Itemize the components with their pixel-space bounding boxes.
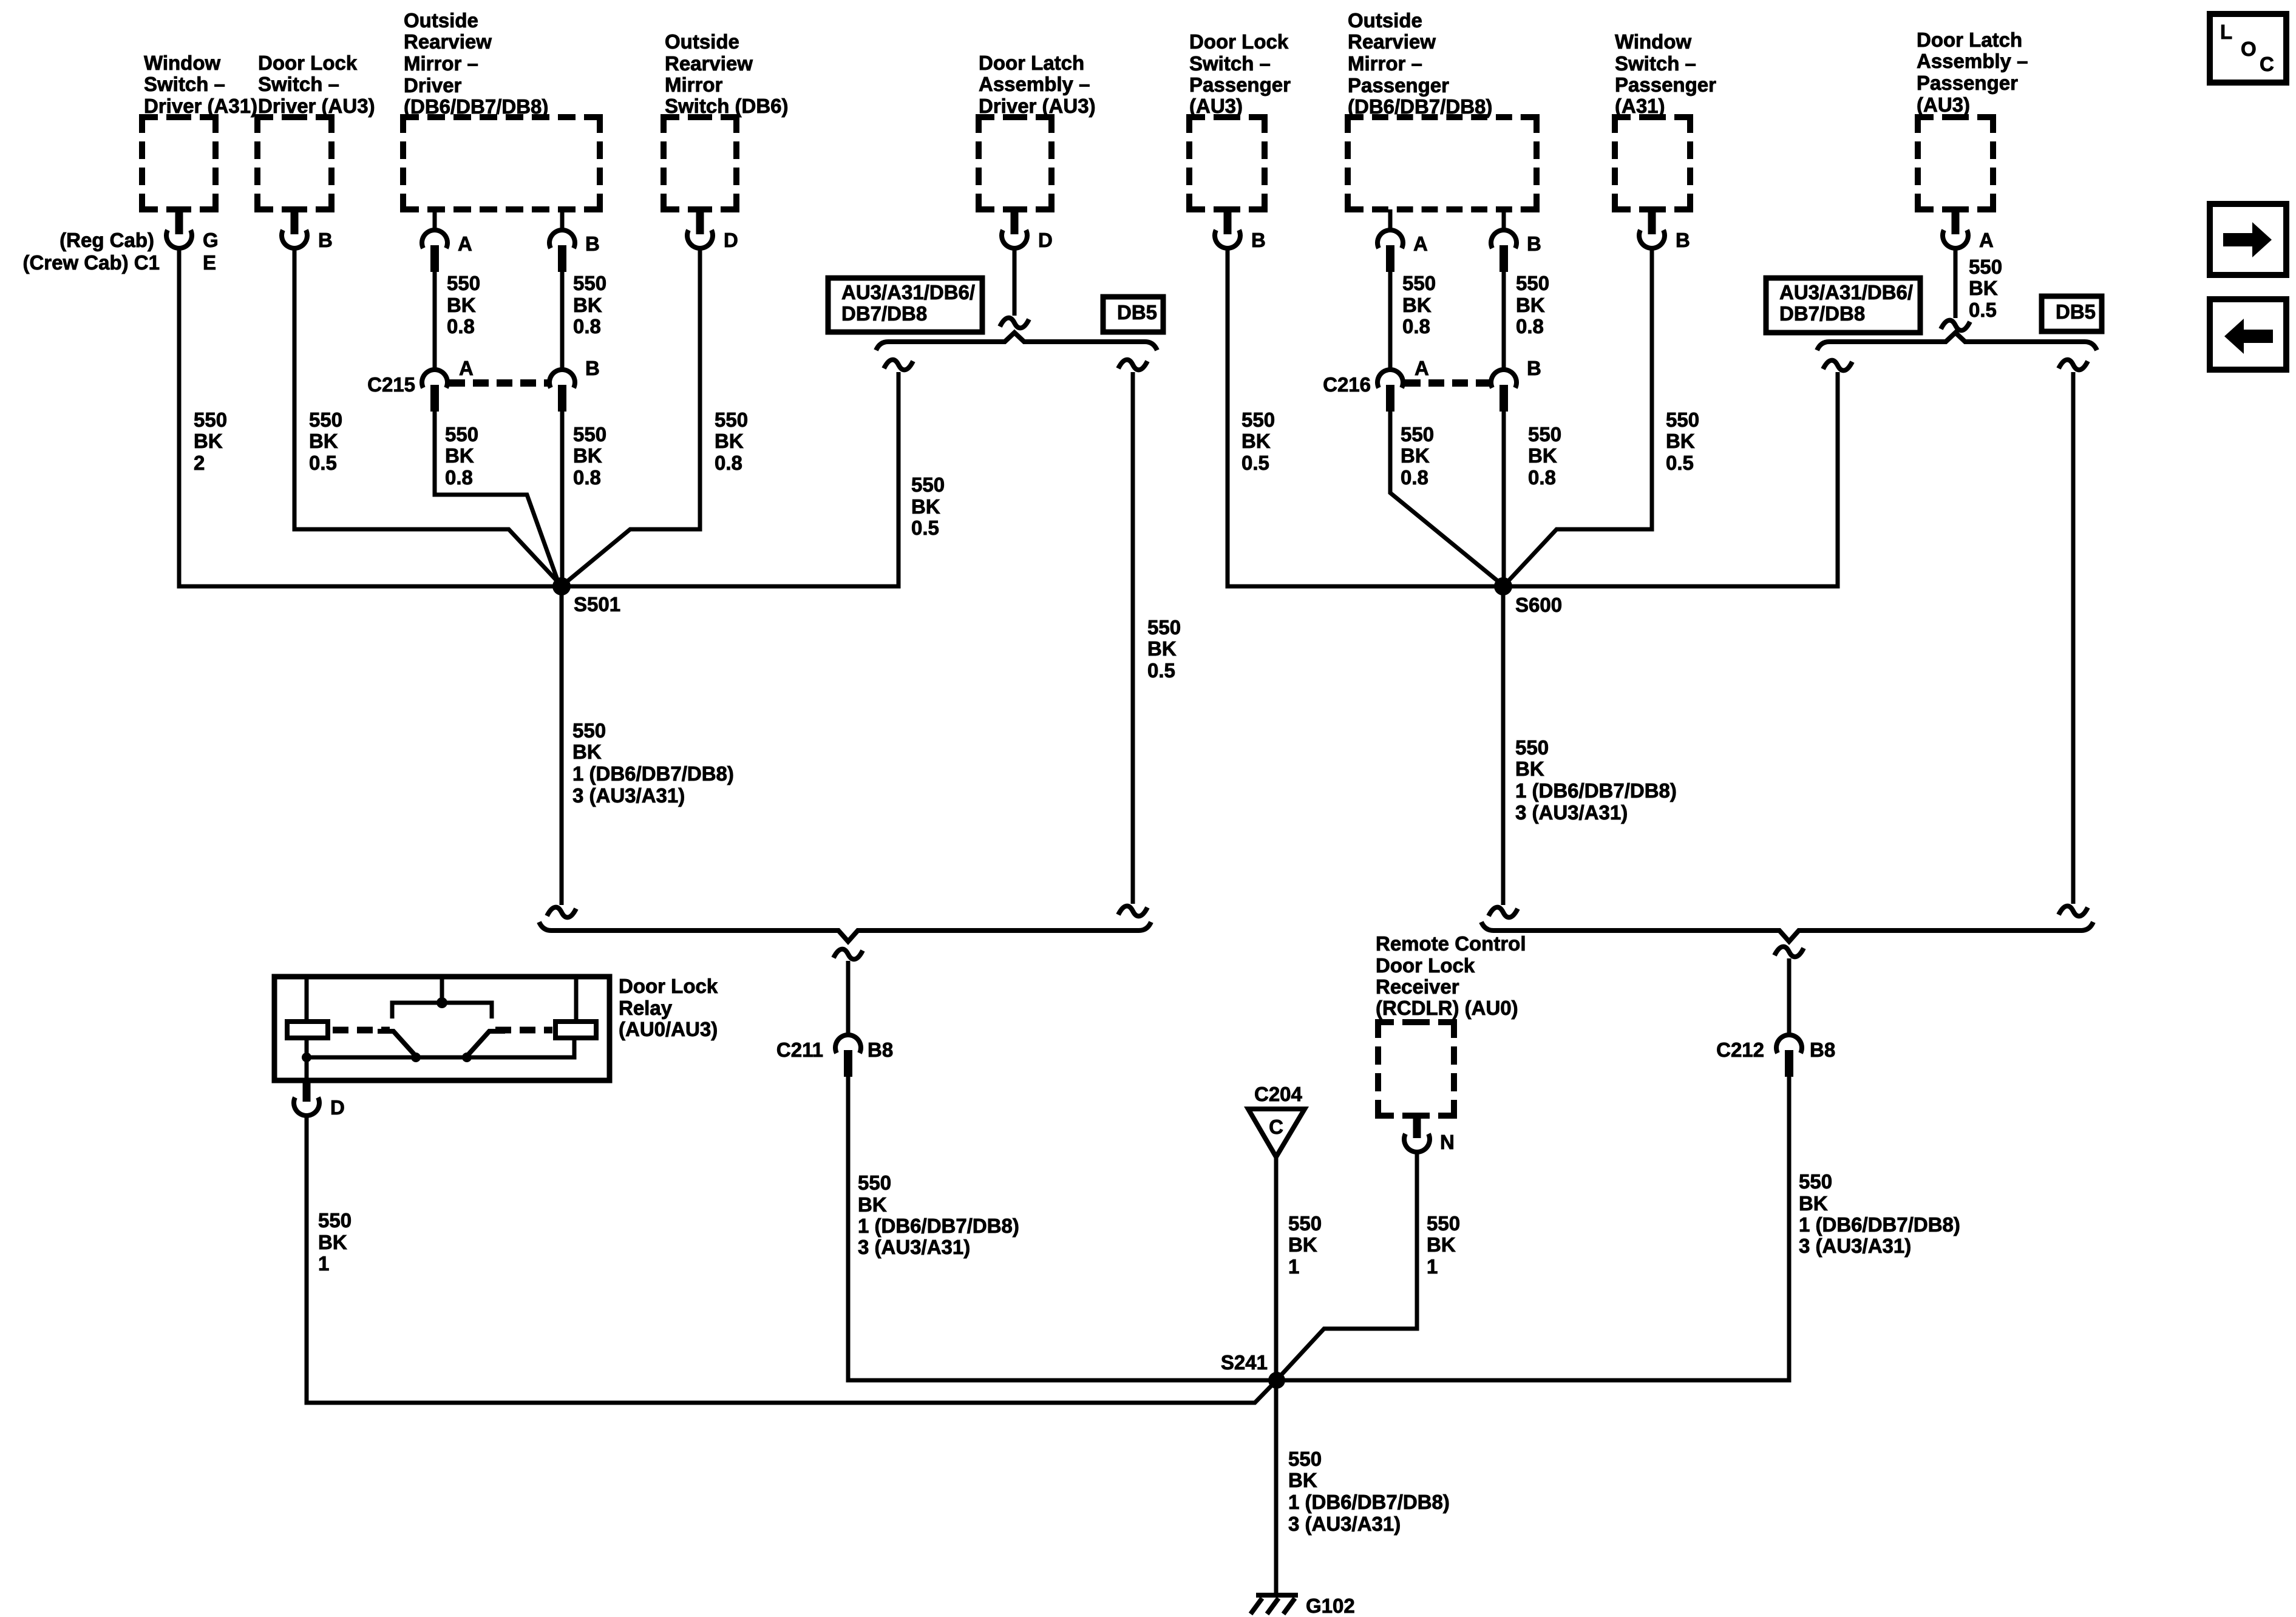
svg-text:Door Latch: Door Latch bbox=[979, 52, 1084, 74]
break symbol driver bracket left leg bbox=[884, 360, 913, 370]
wire: mirror driver pin A lead bbox=[433, 209, 437, 231]
pin letter A bbox=[458, 232, 472, 255]
wire: C215 B into S501 bbox=[560, 407, 565, 586]
connector B (Mirror Passenger) bbox=[1491, 230, 1517, 272]
svg-text:Driver (A31): Driver (A31) bbox=[144, 95, 257, 117]
svg-text:BK: BK bbox=[1241, 430, 1271, 452]
svg-text:1 (DB6/DB7/DB8): 1 (DB6/DB7/DB8) bbox=[572, 762, 734, 785]
pin letter G bbox=[203, 229, 219, 251]
svg-text:550: 550 bbox=[1288, 1212, 1322, 1235]
svg-text:A: A bbox=[1979, 229, 1994, 251]
dashed link C216 bbox=[1405, 379, 1489, 387]
svg-text:C211: C211 bbox=[776, 1039, 823, 1061]
svg-text:G102: G102 bbox=[1306, 1595, 1355, 1617]
wire label 550 BK 1/3 (S501 down) bbox=[572, 719, 734, 807]
svg-text:Mirror: Mirror bbox=[665, 73, 723, 96]
svg-text:Passenger: Passenger bbox=[1189, 73, 1291, 96]
dashed link C215 bbox=[449, 379, 548, 387]
svg-text:Driver (AU3): Driver (AU3) bbox=[258, 95, 375, 117]
svg-text:550: 550 bbox=[1147, 616, 1181, 639]
svg-text:Relay: Relay bbox=[619, 997, 673, 1019]
component box: Outside Rearview Mirror - Driver bbox=[403, 117, 600, 209]
connector C212 cavity B8 bbox=[1776, 1035, 1802, 1077]
svg-text:1 (DB6/DB7/DB8): 1 (DB6/DB7/DB8) bbox=[1515, 779, 1677, 802]
label C215 bbox=[367, 373, 415, 396]
wire: mirror passenger B to C216 bbox=[1502, 267, 1506, 368]
wire: mirror passenger pin B lead bbox=[1502, 209, 1506, 231]
splice S241 bbox=[1268, 1372, 1285, 1389]
svg-text:BK: BK bbox=[1515, 758, 1544, 780]
connector A (Mirror Passenger) bbox=[1377, 230, 1403, 272]
svg-text:Door Latch: Door Latch bbox=[1917, 29, 2022, 51]
svg-text:BK: BK bbox=[1427, 1233, 1456, 1256]
svg-text:Driver (AU3): Driver (AU3) bbox=[979, 95, 1096, 117]
svg-text:0.5: 0.5 bbox=[1666, 452, 1694, 474]
wire: mirror A to C215 bbox=[433, 267, 437, 368]
wire label 550 BK 1/3 (ground leg) bbox=[1288, 1448, 1450, 1535]
wire label 550 BK 0.5 (door lock driver) bbox=[309, 408, 342, 474]
wire: body harness ground bus bbox=[848, 1072, 1789, 1380]
svg-text:BK: BK bbox=[1288, 1233, 1317, 1256]
wire: door latch passenger A down bbox=[1954, 246, 1958, 318]
break symbol passenger bracket left leg bbox=[1823, 361, 1852, 371]
svg-text:B: B bbox=[318, 229, 333, 251]
wire label 550 BK 1 (C204) bbox=[1288, 1212, 1322, 1278]
svg-text:0.8: 0.8 bbox=[1402, 315, 1430, 337]
svg-text:3 (AU3/A31): 3 (AU3/A31) bbox=[1288, 1513, 1401, 1535]
svg-text:Switch –: Switch – bbox=[1615, 52, 1696, 75]
bracket brace (driver bottom) bbox=[539, 922, 1151, 941]
wire: C216 A into S600 bbox=[1390, 407, 1501, 584]
connector C215 cavity A bbox=[422, 370, 447, 412]
wire: mirror switch D into S501 bbox=[563, 246, 700, 585]
svg-text:3 (AU3/A31): 3 (AU3/A31) bbox=[858, 1236, 970, 1258]
svg-text:E: E bbox=[203, 251, 216, 274]
svg-text:Window: Window bbox=[1615, 30, 1691, 53]
wire: mirror driver pin B lead bbox=[560, 209, 565, 231]
box DB5 (driver) bbox=[1103, 297, 1163, 332]
pin letter B bbox=[1676, 229, 1690, 251]
splice S600 bbox=[1494, 577, 1512, 595]
svg-text:BK: BK bbox=[573, 294, 602, 316]
svg-text:1: 1 bbox=[1288, 1255, 1299, 1278]
text DB5 (driver) bbox=[1117, 301, 1157, 324]
svg-text:Rearview: Rearview bbox=[404, 30, 492, 53]
svg-text:550: 550 bbox=[572, 719, 606, 742]
relay dashed actuator line left bbox=[333, 1027, 390, 1034]
pin letter A bbox=[1979, 229, 1994, 251]
wire label 550 BK 0.8 (mirror B upper) bbox=[573, 272, 606, 337]
label: Outside Rearview Mirror Passenger bbox=[1348, 9, 1492, 118]
box AU3/A31/DB6/DB7/DB8 (passenger) bbox=[1766, 278, 1920, 333]
letter C in C204 bbox=[1269, 1116, 1283, 1138]
component box: Door Latch Assembly - Passenger bbox=[1918, 117, 1993, 209]
wire: door lock driver into S501 bbox=[294, 246, 560, 584]
pin letter A bbox=[1415, 357, 1429, 379]
label: Outside Rearview Mirror Switch (DB6) bbox=[665, 30, 789, 117]
relay coil right bbox=[555, 1022, 596, 1038]
label S501 bbox=[574, 593, 620, 615]
svg-text:BK: BK bbox=[447, 294, 476, 316]
wire: relay right coil feed bbox=[574, 977, 579, 1022]
svg-text:0.8: 0.8 bbox=[573, 466, 601, 489]
wire label 550 BK 0.8 (C216 A lower) bbox=[1401, 423, 1434, 489]
note (Crew Cab) C1 bbox=[22, 251, 160, 274]
svg-text:Switch –: Switch – bbox=[1189, 52, 1271, 75]
bracket brace (driver top) bbox=[876, 333, 1157, 350]
component box: Outside Rearview Mirror Switch bbox=[664, 117, 736, 209]
svg-text:550: 550 bbox=[1516, 272, 1549, 294]
svg-text:A: A bbox=[459, 357, 474, 379]
pin letter D bbox=[330, 1096, 345, 1119]
svg-text:C216: C216 bbox=[1323, 373, 1371, 396]
svg-text:Outside: Outside bbox=[665, 30, 739, 53]
wire: passenger brace to C212 bbox=[1787, 958, 1792, 1033]
label C204 bbox=[1254, 1083, 1303, 1105]
component box: Outside Rearview Mirror - Passenger bbox=[1348, 117, 1537, 209]
arrow right bbox=[2223, 222, 2272, 257]
svg-text:DB7/DB8: DB7/DB8 bbox=[1779, 302, 1865, 325]
label C211 bbox=[776, 1039, 823, 1061]
break symbol below driver lower brace bbox=[834, 949, 863, 960]
relay box outline bbox=[274, 977, 610, 1080]
svg-text:Mirror –: Mirror – bbox=[404, 52, 478, 75]
wire: C216 B into S600 bbox=[1502, 407, 1506, 586]
pin letter B bbox=[1251, 229, 1266, 251]
svg-text:B: B bbox=[585, 232, 600, 255]
label: Window Switch Passenger (A31) bbox=[1615, 30, 1716, 117]
wire: S501 down to driver brace bbox=[560, 586, 564, 905]
svg-text:550: 550 bbox=[1515, 736, 1549, 759]
label S241 bbox=[1221, 1351, 1268, 1374]
splice S501 bbox=[552, 577, 571, 595]
svg-text:Switch –: Switch – bbox=[258, 73, 339, 95]
wire: relay fixed contacts bracket bbox=[392, 1003, 492, 1019]
label C216 bbox=[1323, 373, 1371, 396]
svg-text:L: L bbox=[2220, 21, 2232, 43]
break symbol above driver bracket bbox=[1000, 318, 1029, 328]
wire: relay bottom bus bbox=[307, 1038, 574, 1057]
wire label 550 BK 1/3 (C211) bbox=[858, 1171, 1019, 1258]
relay coil left bbox=[287, 1022, 328, 1038]
svg-text:550: 550 bbox=[194, 408, 227, 431]
svg-text:S241: S241 bbox=[1221, 1351, 1268, 1374]
svg-text:550: 550 bbox=[1402, 272, 1436, 294]
svg-text:550: 550 bbox=[1427, 1212, 1460, 1235]
svg-text:Switch (DB6): Switch (DB6) bbox=[665, 95, 789, 117]
svg-text:0.8: 0.8 bbox=[1516, 315, 1544, 337]
component box: Door Lock Switch - Passenger bbox=[1189, 117, 1265, 209]
wire: mirror passenger pin A lead bbox=[1388, 209, 1393, 231]
wire: window driver down, S501 bus, up to driver bracket bbox=[179, 246, 898, 586]
component box: Door Lock Switch - Driver bbox=[257, 117, 331, 209]
svg-text:A: A bbox=[1413, 232, 1428, 255]
svg-text:550: 550 bbox=[1528, 423, 1561, 446]
label: Door Lock Relay (AU0/AU3) bbox=[619, 975, 718, 1040]
wire: driver brace to C211 bbox=[846, 961, 851, 1033]
wire: driver DB5 leg down bbox=[1131, 372, 1135, 904]
svg-text:Door Lock: Door Lock bbox=[619, 975, 718, 997]
svg-text:3 (AU3/A31): 3 (AU3/A31) bbox=[572, 784, 685, 807]
relay node armature right bbox=[462, 1053, 472, 1062]
svg-text:550: 550 bbox=[573, 423, 606, 446]
svg-text:BK: BK bbox=[309, 430, 338, 452]
wire label 550 BK 0.8 (C215 B lower) bbox=[573, 423, 606, 489]
wire label 550 BK 0.5 (driver bracket left) bbox=[911, 473, 945, 539]
break symbol passenger bracket right leg bbox=[2059, 360, 2088, 370]
svg-text:S501: S501 bbox=[574, 593, 620, 615]
svg-text:550: 550 bbox=[1969, 256, 2002, 278]
svg-text:0.8: 0.8 bbox=[573, 315, 601, 337]
svg-text:BK: BK bbox=[715, 430, 744, 452]
svg-text:BK: BK bbox=[1288, 1469, 1317, 1491]
wire: relay D to S241 bbox=[307, 1114, 1275, 1403]
relay node armature left bbox=[411, 1053, 421, 1062]
pin letter B bbox=[585, 232, 600, 255]
wire: relay common feed bbox=[440, 977, 444, 1001]
arrow box left bbox=[2210, 299, 2286, 370]
svg-text:Switch –: Switch – bbox=[144, 73, 225, 95]
connector pin D (Mirror Switch) bbox=[687, 209, 713, 248]
connector pin B (Door Lock Switch Driver) bbox=[282, 209, 307, 248]
relay armature left bbox=[378, 1031, 416, 1056]
svg-text:Assembly –: Assembly – bbox=[979, 73, 1090, 95]
break symbol above passenger lower brace (S600 wire) bbox=[1489, 907, 1518, 918]
svg-text:Door Lock: Door Lock bbox=[1189, 30, 1289, 53]
svg-text:Door Lock: Door Lock bbox=[258, 52, 358, 74]
svg-text:1 (DB6/DB7/DB8): 1 (DB6/DB7/DB8) bbox=[1799, 1213, 1960, 1236]
svg-text:G: G bbox=[203, 229, 219, 251]
box DB5 (passenger) bbox=[2042, 296, 2102, 331]
svg-text:(A31): (A31) bbox=[1615, 95, 1665, 117]
svg-text:BK: BK bbox=[1401, 444, 1430, 467]
svg-text:C204: C204 bbox=[1254, 1083, 1303, 1105]
svg-text:0.5: 0.5 bbox=[309, 452, 337, 474]
relay armature right bbox=[467, 1031, 505, 1056]
svg-text:0.8: 0.8 bbox=[445, 466, 473, 489]
svg-text:BK: BK bbox=[318, 1231, 347, 1253]
relay node common bbox=[436, 997, 447, 1008]
svg-text:BK: BK bbox=[911, 495, 940, 518]
wire label 550 BK 0.8 (mirror A upper) bbox=[447, 272, 480, 337]
wire label 550 BK 0.8 (mirror switch D) bbox=[715, 408, 748, 474]
svg-text:Remote Control: Remote Control bbox=[1376, 932, 1526, 955]
svg-text:(AU3): (AU3) bbox=[1917, 93, 1970, 116]
label: Door Latch Assembly Driver (AU3) bbox=[979, 52, 1096, 117]
wire label 550 BK 1 (RCDLR) bbox=[1427, 1212, 1460, 1278]
wire label 550 BK 1/3 (C212) bbox=[1799, 1170, 1960, 1257]
label: Remote Control Door Lock Receiver bbox=[1376, 932, 1526, 1019]
pin letter B bbox=[585, 357, 600, 379]
label: Window Switch Driver (A31) bbox=[144, 52, 257, 117]
connector pin D (Door Latch Driver) bbox=[1002, 209, 1027, 248]
pin letter B bbox=[1527, 357, 1541, 379]
svg-text:N: N bbox=[1440, 1131, 1455, 1153]
wire label 550 BK 0.8 (C215 A lower) bbox=[445, 423, 478, 489]
connector A (Mirror Driver) bbox=[422, 230, 447, 272]
label B8 (C211) bbox=[868, 1039, 893, 1061]
note (Reg Cab) bbox=[59, 229, 154, 251]
component box: RCDLR bbox=[1378, 1022, 1454, 1116]
svg-text:Door Lock: Door Lock bbox=[1376, 954, 1475, 977]
label: Door Latch Assembly Passenger (AU3) bbox=[1917, 29, 2028, 116]
connector C216 cavity B bbox=[1491, 370, 1517, 412]
wire label 550 BK 0.8 (mirror pass A upper) bbox=[1402, 272, 1436, 337]
svg-text:BK: BK bbox=[1799, 1192, 1828, 1215]
pin letter D bbox=[1038, 229, 1053, 251]
svg-text:0.5: 0.5 bbox=[1147, 659, 1175, 682]
svg-text:550: 550 bbox=[447, 272, 480, 294]
box AU3/A31/DB6/DB7/DB8 (driver) bbox=[828, 278, 982, 332]
svg-text:550: 550 bbox=[309, 408, 342, 431]
svg-text:0.8: 0.8 bbox=[1528, 466, 1556, 489]
bracket brace (passenger top) bbox=[1817, 333, 2097, 350]
svg-text:1: 1 bbox=[318, 1252, 329, 1275]
svg-text:(DB6/DB7/DB8): (DB6/DB7/DB8) bbox=[1348, 95, 1492, 118]
svg-text:B8: B8 bbox=[1810, 1039, 1835, 1061]
svg-text:BK: BK bbox=[445, 444, 474, 467]
svg-text:S600: S600 bbox=[1515, 594, 1562, 616]
wire: RCDLR N to S241 bbox=[1279, 1151, 1417, 1378]
bracket brace (passenger bottom) bbox=[1481, 922, 2093, 941]
wire label 550 BK 0.5 (window passenger) bbox=[1666, 408, 1699, 474]
svg-text:Passenger: Passenger bbox=[1348, 74, 1449, 97]
wire label 550 BK 0.8 (C216 B lower) bbox=[1528, 423, 1561, 489]
svg-text:(RCDLR) (AU0): (RCDLR) (AU0) bbox=[1376, 997, 1518, 1019]
component box: Window Switch - Passenger bbox=[1615, 117, 1690, 209]
pin letter D bbox=[724, 229, 738, 251]
svg-text:3 (AU3/A31): 3 (AU3/A31) bbox=[1515, 801, 1628, 824]
connector C216 cavity A bbox=[1377, 370, 1403, 412]
svg-text:(DB6/DB7/DB8): (DB6/DB7/DB8) bbox=[404, 95, 548, 118]
wire: window passenger into S600 bbox=[1505, 246, 1652, 585]
svg-text:BK: BK bbox=[1402, 294, 1432, 316]
svg-text:C: C bbox=[1269, 1116, 1283, 1138]
svg-text:Outside: Outside bbox=[404, 9, 478, 32]
svg-text:550: 550 bbox=[1288, 1448, 1322, 1470]
label S600 bbox=[1515, 594, 1562, 616]
svg-text:BK: BK bbox=[194, 430, 223, 452]
svg-text:550: 550 bbox=[858, 1171, 891, 1194]
svg-text:Passenger: Passenger bbox=[1615, 73, 1716, 96]
svg-text:Receiver: Receiver bbox=[1376, 975, 1459, 998]
wire: mirror B to C215 bbox=[560, 267, 565, 368]
LOC letters bbox=[2220, 21, 2274, 75]
svg-text:A: A bbox=[458, 232, 472, 255]
svg-text:550: 550 bbox=[1666, 408, 1699, 431]
svg-text:DB5: DB5 bbox=[2056, 300, 2096, 323]
svg-text:Driver: Driver bbox=[404, 74, 462, 97]
pin letter A bbox=[459, 357, 474, 379]
svg-text:Outside: Outside bbox=[1348, 9, 1422, 32]
connector pin B (Window Switch Passenger) bbox=[1639, 209, 1665, 248]
ground G102 bbox=[1251, 1595, 1298, 1614]
svg-text:1 (DB6/DB7/DB8): 1 (DB6/DB7/DB8) bbox=[1288, 1491, 1450, 1513]
arrow box right bbox=[2210, 204, 2286, 275]
connector B (Mirror Driver) bbox=[549, 230, 575, 272]
svg-text:C: C bbox=[2260, 53, 2274, 75]
svg-text:(Reg Cab): (Reg Cab) bbox=[59, 229, 154, 251]
wire: passenger DB5 leg down bbox=[2071, 372, 2076, 904]
break symbol DB5 leg bottom bbox=[1118, 906, 1147, 917]
svg-text:D: D bbox=[330, 1096, 345, 1119]
svg-text:A: A bbox=[1415, 357, 1429, 379]
svg-text:DB5: DB5 bbox=[1117, 301, 1157, 324]
text AU3/A31/DB6/DB7/DB8 (driver) bbox=[841, 281, 975, 325]
arrow left bbox=[2224, 319, 2273, 354]
connector pin D (Door Lock Relay) bbox=[294, 1080, 319, 1116]
svg-text:0.5: 0.5 bbox=[1969, 299, 1997, 321]
wire: relay left coil to bottom bus bbox=[305, 1038, 309, 1080]
svg-text:0.8: 0.8 bbox=[1401, 466, 1428, 489]
svg-text:550: 550 bbox=[445, 423, 478, 446]
wire label 550 BK 0.5 (door lock passenger) bbox=[1241, 408, 1275, 474]
svg-text:BK: BK bbox=[1516, 294, 1545, 316]
svg-text:B: B bbox=[1527, 357, 1541, 379]
svg-text:BK: BK bbox=[1147, 637, 1177, 660]
component box: Window Switch - Driver bbox=[142, 117, 216, 209]
svg-text:(Crew Cab) C1: (Crew Cab) C1 bbox=[22, 251, 160, 274]
wire: door latch driver D down bbox=[1013, 246, 1017, 316]
svg-text:(AU3): (AU3) bbox=[1189, 95, 1243, 117]
wire label 550 BK 1 (relay) bbox=[318, 1209, 352, 1275]
svg-text:Rearview: Rearview bbox=[1348, 30, 1436, 53]
svg-text:0.8: 0.8 bbox=[447, 315, 475, 337]
svg-text:550: 550 bbox=[1241, 408, 1275, 431]
label B8 (C212) bbox=[1810, 1039, 1835, 1061]
LOC box bbox=[2210, 14, 2286, 83]
break symbol driver bracket right leg bbox=[1118, 360, 1147, 370]
svg-text:0.5: 0.5 bbox=[911, 517, 939, 539]
svg-text:B: B bbox=[1676, 229, 1690, 251]
wire: door lock passenger down, S600 bus, up to passenger bracket bbox=[1228, 246, 1838, 586]
svg-text:Passenger: Passenger bbox=[1917, 72, 2018, 94]
svg-text:O: O bbox=[2241, 38, 2257, 60]
text AU3/A31/DB6/DB7/DB8 (passenger) bbox=[1779, 281, 1913, 325]
wire: C204 through S241 to ground bbox=[1274, 1157, 1279, 1593]
svg-text:2: 2 bbox=[194, 452, 205, 474]
break symbol above driver lower brace (S501 wire) bbox=[547, 907, 576, 918]
connector pin G (Window Switch Driver) bbox=[166, 209, 192, 248]
svg-text:B: B bbox=[1251, 229, 1266, 251]
connector C211 cavity B8 bbox=[835, 1035, 861, 1077]
label G102 bbox=[1306, 1595, 1355, 1617]
svg-text:AU3/A31/DB6/: AU3/A31/DB6/ bbox=[1779, 281, 1913, 303]
svg-text:550: 550 bbox=[318, 1209, 352, 1232]
svg-text:B8: B8 bbox=[868, 1039, 893, 1061]
svg-text:0.8: 0.8 bbox=[715, 452, 742, 474]
svg-text:D: D bbox=[1038, 229, 1053, 251]
svg-text:B: B bbox=[1527, 232, 1541, 255]
break symbol above passenger bracket bbox=[1941, 320, 1970, 331]
wire: relay left coil feed bbox=[305, 977, 309, 1022]
pin letter E bbox=[203, 251, 216, 274]
svg-text:BK: BK bbox=[1969, 277, 1998, 299]
svg-text:C215: C215 bbox=[367, 373, 415, 396]
relay node left bbox=[302, 1053, 311, 1062]
svg-text:BK: BK bbox=[858, 1193, 887, 1216]
pin letter N bbox=[1440, 1131, 1455, 1153]
svg-text:BK: BK bbox=[1528, 444, 1557, 467]
connector pin A (Door Latch Passenger) bbox=[1943, 209, 1968, 248]
component box: Door Latch Assembly - Driver bbox=[979, 117, 1051, 209]
relay dashed actuator line right bbox=[495, 1027, 552, 1034]
wire label 550 BK 1/3 (S600 down) bbox=[1515, 736, 1677, 824]
svg-text:550: 550 bbox=[911, 473, 945, 496]
svg-text:1: 1 bbox=[1427, 1255, 1438, 1278]
svg-text:BK: BK bbox=[573, 444, 602, 467]
wire label 550 BK 0.5 (door latch passenger) bbox=[1969, 256, 2002, 321]
